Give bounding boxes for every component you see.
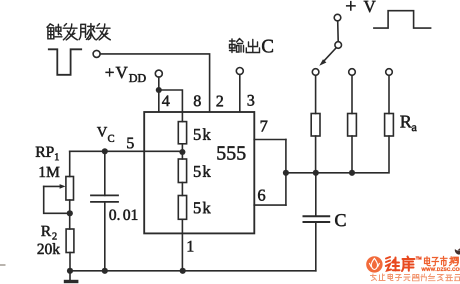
junction ground cap 0.01 [102,268,108,274]
wire pin7-6 link [285,140,287,206]
internal resistor 5k top [178,122,186,144]
junction bus left node [283,170,289,176]
label 0.01 [109,210,137,221]
pin label 8 [194,95,201,106]
pin label 5 [127,138,134,149]
wire throw2 down [351,75,353,113]
junction VC-cap node [102,148,108,154]
terminal: throw 2 [349,69,356,76]
wire R2 to ground [69,253,71,271]
internal resistor 5k bottom [178,196,186,220]
wire to pin 8 [159,90,183,122]
switch pole link wire [337,21,340,42]
junction RP1 wiper node [67,210,73,216]
watermark TM [416,257,421,260]
terminal: +V supply [334,14,341,21]
wire cap 0.01 bottom [104,202,106,271]
wire trigger to pin 2 [100,54,209,112]
IC U1 555 box [144,112,254,233]
resistor (throw 2) [348,114,357,137]
wire chain 2-3 [181,183,183,196]
label VC [97,127,114,142]
wire RP1 bottom [69,200,71,229]
pin label 6 [258,190,265,201]
pin label 3 [248,95,255,106]
label 5k bottom [194,202,211,214]
wire resistor1 to bus [315,136,317,173]
wire pin 7 stub [254,139,286,141]
label R2 [41,226,56,240]
wire capacitor to ground bus [315,222,317,271]
watermark text 维库 [386,257,415,272]
ground symbol [64,271,79,283]
ground bus wire [70,270,316,272]
junction bus-capacitor node [313,170,319,176]
wire bus to capacitor C [315,173,317,215]
pin label 7 [261,121,268,132]
junction bus throw2 node [349,170,355,176]
pin label 1 [188,241,194,252]
label 1M [40,167,60,177]
watermark text 电子市场网 [425,257,459,267]
stray mark left edge [0,264,6,266]
wire chain 1-2 [181,144,183,159]
label 5k top [194,128,211,140]
wire throw3 down [388,75,390,113]
wire resistor2 to bus [351,136,353,173]
wire VDD terminal down [158,77,160,90]
potentiometer wiper arrow [44,184,70,213]
resistor R2 [66,229,74,253]
capacitor C [304,216,330,222]
junction ground R2 [67,268,73,274]
wire throw1 down [315,75,317,113]
watermark logo circle [366,256,382,272]
label +V [346,1,375,12]
terminal: VDD [155,70,162,77]
stray dark tick top right [455,248,460,254]
junction VDD node [156,87,162,93]
resistor Ra [385,114,394,137]
terminal: trigger input [93,50,100,57]
potentiometer RP1 body [66,177,74,201]
label C [335,214,345,226]
watermark url [422,268,460,271]
wire to pin 4 [158,90,160,112]
label 555 [217,146,245,159]
terminal: throw 1 [312,69,319,76]
internal resistor 5k middle [178,159,186,183]
terminal: output pin 3 [236,68,243,75]
label: trigger pulse text 触发脉发 [47,24,110,40]
wire pin 1 to ground bus [181,219,183,270]
label +VDD [106,67,146,82]
resistor (throw 1) [311,114,320,137]
wire pin 6 stub [254,204,286,206]
label 5k middle [194,165,211,177]
wire resistor Ra to bus [352,136,389,173]
switch pole circle [335,42,342,49]
label 20k [38,243,61,254]
label 输出C [230,39,260,53]
pin label 4 [162,96,170,107]
trigger pulse waveform [49,49,81,75]
wire pin 3 [239,75,241,112]
pin label 2 [217,96,223,107]
watermark tagline 专业电子元器件交易平台 [371,274,460,281]
junction ground pin1 [180,268,186,274]
label Ra [400,116,416,131]
terminal: throw 3 [386,69,393,76]
capacitor 0.01 [91,195,118,202]
positive pulse waveform [374,11,431,28]
switch arm with arrow [319,48,336,66]
wire pin 5 [70,150,183,152]
wire timing bus [286,172,352,174]
label RP1 [36,147,59,161]
wire cap 0.01 top [104,151,106,195]
wire VC corner to RP1 [69,151,71,176]
junction pin5 node [179,149,185,155]
